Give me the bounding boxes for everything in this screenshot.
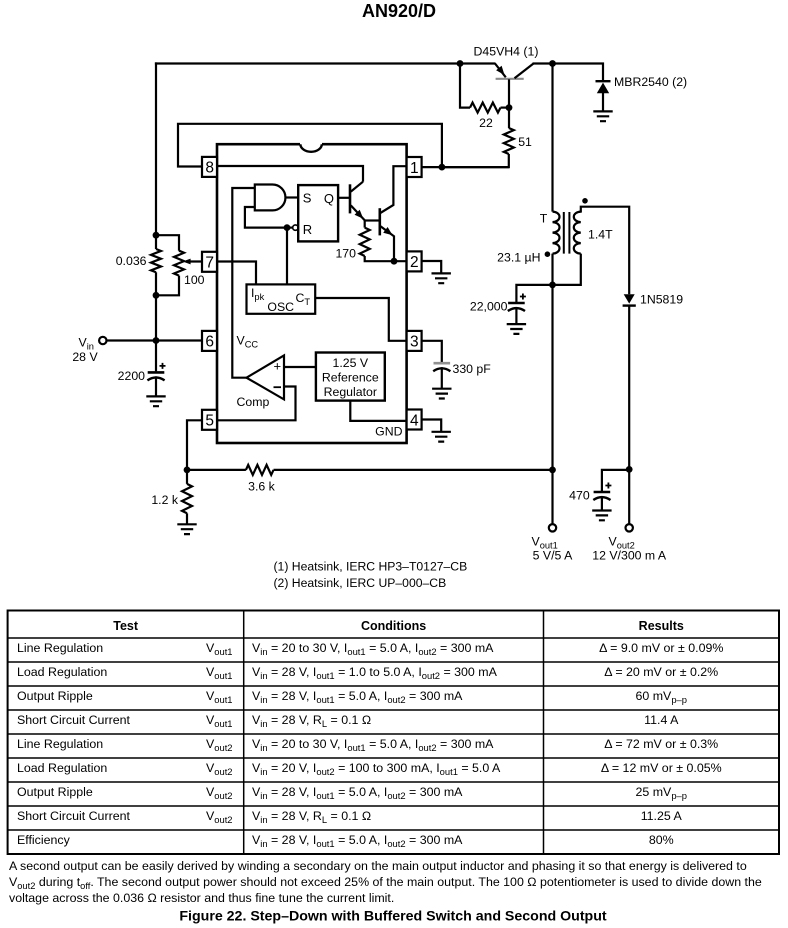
node feedback junction — [184, 467, 191, 474]
table column dividers — [244, 611, 544, 855]
wire pin 3 to 330 pF — [421, 341, 442, 362]
svg-text:80%: 80% — [649, 833, 674, 847]
transistor Q3 emitter arrow — [496, 66, 504, 75]
svg-text:T: T — [540, 212, 548, 226]
resistor 51 — [508, 108, 510, 128]
svg-text:28 V: 28 V — [72, 350, 98, 364]
svg-text:Efficiency: Efficiency — [17, 833, 71, 847]
reference regulator box — [316, 353, 385, 401]
wire Vin input to pin 6 — [106, 339, 202, 341]
resistor 22 — [470, 103, 500, 113]
svg-text:3.6 k: 3.6 k — [248, 479, 276, 493]
svg-text:330 pF: 330 pF — [453, 362, 492, 376]
svg-text:Figure 22. Step–Down with Buff: Figure 22. Step–Down with Buffered Switc… — [179, 909, 607, 925]
op-amp comparator triangle — [247, 355, 285, 399]
wire secondary top to 1N5819 — [581, 207, 629, 295]
svg-text:8: 8 — [205, 160, 214, 177]
svg-text:2: 2 — [410, 254, 419, 271]
ground pin 2 — [432, 273, 451, 283]
wire pin 8 internal to Q1 collector — [218, 166, 363, 182]
svg-text:22: 22 — [479, 116, 493, 130]
wire top rail horizontal to Q3 emitter — [155, 62, 496, 64]
svg-text:1N5819: 1N5819 — [640, 292, 683, 306]
wire Q3 base down to 22/51 junction — [508, 79, 510, 107]
resistor 0.036 current sense — [151, 249, 161, 272]
node junction 470 uF branch — [626, 466, 633, 473]
wire Vin top rail vertical — [155, 62, 157, 249]
potentiometer 100 — [174, 251, 184, 276]
wire AND lower input to R line — [245, 207, 287, 228]
node junction feedback / Vout1 — [549, 467, 556, 474]
label - input — [274, 386, 282, 388]
svg-text:Output Ripple: Output Ripple — [17, 689, 93, 703]
terminal Vin — [99, 337, 106, 344]
resistor 3.6 k feedback — [187, 469, 246, 471]
wire Vout1 vertical — [551, 285, 553, 524]
ground for MBR2540 — [593, 111, 612, 121]
ground for 2200 uF — [146, 396, 165, 406]
svg-text:11.4 A: 11.4 A — [644, 713, 679, 727]
transistor Q2 collector — [381, 166, 407, 213]
wire pin 4 to ground — [421, 420, 441, 432]
wire latch Q to Q1 base — [338, 197, 349, 199]
op IC U1 MC34063 outline — [217, 144, 407, 443]
wire pin 7 internal to oscillator — [218, 262, 256, 285]
inductor secondary winding 1.4T — [574, 212, 581, 254]
svg-text:Δ = 12 mV or ± 0.05%: Δ = 12 mV or ± 0.05% — [601, 761, 722, 775]
pot wiper arrow — [183, 259, 191, 265]
capacitor 470 uF second output — [602, 470, 629, 491]
transistor Q1 emitter — [351, 205, 365, 220]
svg-text:7: 7 — [205, 255, 214, 272]
transistor Q1 emitter arrow — [355, 210, 364, 219]
pin 5 box — [202, 410, 217, 430]
svg-text:Load Regulation: Load Regulation — [17, 665, 107, 679]
terminal Vout1 — [549, 524, 556, 531]
wire R node to latch bubble — [287, 227, 293, 229]
transistor Q3 collector — [515, 64, 534, 79]
svg-text:Vin = 28 V, Iout1 = 5.0 A, Iou: Vin = 28 V, Iout1 = 5.0 A, Iout2 = 300 m… — [252, 689, 463, 705]
capacitor 330 pF timing — [434, 362, 451, 365]
node junction top rail / switch node vertical — [549, 60, 556, 67]
svg-text:Line Regulation: Line Regulation — [17, 641, 103, 655]
svg-text:Vin = 20 to 30 V, Iout1 = 5.0: Vin = 20 to 30 V, Iout1 = 5.0 A, Iout2 =… — [252, 737, 494, 753]
wire pin 2 to ground — [421, 261, 441, 273]
svg-text:170: 170 — [335, 246, 356, 260]
transistor Q3 D45VH4 emitter — [495, 64, 506, 78]
svg-text:2200: 2200 — [118, 369, 146, 383]
ground pin 4 — [432, 432, 451, 442]
table row dividers — [8, 638, 779, 830]
svg-text:Vin = 28 V, Iout1 = 5.0 A, Iou: Vin = 28 V, Iout1 = 5.0 A, Iout2 = 300 m… — [252, 785, 463, 801]
svg-text:Comp: Comp — [237, 395, 270, 409]
svg-text:Line Regulation: Line Regulation — [17, 737, 103, 751]
svg-text:470: 470 — [569, 488, 590, 502]
node junction Q2 emitter / pin 2 line — [391, 258, 398, 265]
gate U2 AND — [255, 185, 286, 211]
svg-text:Short Circuit Current: Short Circuit Current — [17, 713, 130, 727]
resistor 1.2 k — [186, 470, 188, 484]
wire reference to pin 4 GND — [350, 401, 406, 421]
svg-text:Δ = 72 mV or ± 0.3%: Δ = 72 mV or ± 0.3% — [604, 737, 718, 751]
svg-text:Vin = 28 V, Iout1 = 5.0 A, Iou: Vin = 28 V, Iout1 = 5.0 A, Iout2 = 300 m… — [252, 833, 463, 849]
wire pin1 to 51-ohm node — [421, 166, 509, 168]
node junction rail / pot bottom — [153, 292, 160, 299]
svg-text:Conditions: Conditions — [361, 619, 426, 633]
svg-text:Reference: Reference — [322, 371, 379, 385]
svg-text:MBR2540 (2): MBR2540 (2) — [614, 75, 687, 89]
ground 22,000 uF — [507, 324, 526, 334]
latch U3 S-R box — [298, 185, 338, 241]
transistor Q2 base bar — [378, 208, 381, 235]
svg-text:(1) Heatsink, IERC HP3–T0127–C: (1) Heatsink, IERC HP3–T0127–CB — [274, 560, 468, 574]
wire Vout2 vertical — [628, 306, 630, 524]
wire secondary bottom to output node — [553, 254, 581, 285]
pin 4 box — [407, 410, 422, 430]
pin 8 box — [202, 157, 217, 177]
node junction top rail / 22-ohm branch — [457, 60, 464, 67]
wire - input to pin 5 — [218, 387, 296, 421]
svg-text:Vout2 during toff. The second: Vout2 during toff. The second output pow… — [9, 875, 762, 891]
svg-text:+: + — [274, 358, 282, 373]
resistor 170 — [364, 221, 366, 228]
pin 7 box — [202, 252, 217, 272]
transistor Q1 base bar — [349, 184, 352, 213]
transistor Q2 emitter arrow — [383, 227, 392, 235]
svg-text:GND: GND — [375, 425, 402, 439]
table outer border — [8, 611, 779, 855]
diode D3 1N5819 rectifier — [624, 294, 635, 303]
node junction rail / pot top — [153, 232, 160, 239]
wire pin 5 to feedback node — [187, 420, 203, 470]
node junction output LC — [549, 282, 556, 289]
svg-text:Δ = 9.0 mV or ± 0.09%: Δ = 9.0 mV or ± 0.09% — [599, 641, 723, 655]
svg-text:Δ = 20 mV or ± 0.2%: Δ = 20 mV or ± 0.2% — [604, 665, 718, 679]
svg-text:Test: Test — [113, 619, 139, 633]
wire CT to pin 3 — [315, 298, 406, 341]
ground 470 uF — [592, 511, 611, 521]
wire primary bottom to output node — [551, 254, 553, 285]
svg-text:Vin = 28 V, RL = 0.1 Ω: Vin = 28 V, RL = 0.1 Ω — [252, 713, 371, 729]
svg-text:OSC: OSC — [267, 300, 294, 314]
svg-text:100: 100 — [184, 273, 205, 287]
svg-text:Short Circuit Current: Short Circuit Current — [17, 809, 130, 823]
wire pot bottom branch — [156, 276, 179, 296]
svg-text:1.2 k: 1.2 k — [151, 493, 179, 507]
inductor T primary winding 23.1 uH — [553, 212, 560, 254]
wire switch node down to transformer — [551, 64, 553, 212]
phase dot secondary — [582, 198, 588, 204]
svg-text:22,000: 22,000 — [470, 299, 508, 313]
pin 3 box — [407, 331, 422, 351]
svg-text:A second output can be easily: A second output can be easily derived by… — [9, 859, 747, 873]
svg-text:Q: Q — [324, 191, 334, 206]
wire R node down to oscillator — [286, 228, 288, 285]
svg-text:Vin = 28 V, RL = 0.1 Ω: Vin = 28 V, RL = 0.1 Ω — [252, 809, 371, 825]
svg-text:Load Regulation: Load Regulation — [17, 761, 107, 775]
wire pot top branch — [156, 235, 179, 251]
phase dot primary — [545, 251, 551, 257]
svg-text:Regulator: Regulator — [324, 385, 377, 399]
svg-text:1.4T: 1.4T — [588, 228, 613, 242]
svg-text:R: R — [303, 222, 312, 237]
wire + input to reference — [284, 366, 316, 368]
svg-text:Vin = 20 V, Iout2 = 100 to 300: Vin = 20 V, Iout2 = 100 to 300 mA, Iout1… — [252, 761, 501, 777]
pin 6 box — [202, 331, 217, 351]
svg-text:6: 6 — [205, 334, 214, 351]
node junction pin1 / pin8 / 51-ohm — [439, 164, 446, 171]
transistor Q2 emitter — [381, 226, 395, 261]
capacitor 2200 uF input — [155, 341, 157, 372]
svg-text:S: S — [303, 191, 312, 206]
pin 2 box — [407, 251, 422, 271]
transistor Q1 driver collector — [351, 182, 363, 192]
svg-text:4: 4 — [410, 412, 419, 429]
transformer core lines — [564, 212, 570, 254]
IC notch — [300, 142, 322, 147]
ground for 1.2 k — [177, 524, 196, 534]
svg-text:AN920/D: AN920/D — [362, 1, 436, 21]
svg-text:Vin = 28 V, Iout1 = 1.0 to 5.0: Vin = 28 V, Iout1 = 1.0 to 5.0 A, Iout2 … — [252, 665, 498, 681]
svg-text:Results: Results — [639, 619, 684, 633]
latch R inversion bubble — [293, 225, 298, 230]
svg-text:0.036: 0.036 — [116, 254, 147, 268]
node junction 22-ohm / 51-ohm / Q3 base — [506, 104, 513, 111]
svg-text:(2) Heatsink, IERC UP–000–CB: (2) Heatsink, IERC UP–000–CB — [274, 576, 447, 590]
wire AND output to latch S — [286, 196, 299, 198]
svg-text:11.25 A: 11.25 A — [641, 809, 683, 823]
pin 1 box — [407, 157, 422, 177]
svg-text:3: 3 — [410, 334, 419, 351]
svg-text:Output Ripple: Output Ripple — [17, 785, 93, 799]
svg-text:23.1 µH: 23.1 µH — [497, 251, 540, 265]
wire top rail Q3 collector to MBR2540 corner — [533, 64, 604, 82]
svg-text:5 V/5 A: 5 V/5 A — [533, 549, 573, 563]
terminal Vout2 — [626, 524, 633, 531]
oscillator box Ipk OSC CT — [247, 284, 316, 313]
svg-text:Vin = 20 to 30 V, Iout1 = 5.0: Vin = 20 to 30 V, Iout1 = 5.0 A, Iout2 =… — [252, 641, 494, 657]
capacitor 22,000 uF output — [516, 285, 552, 302]
node junction Vin rail / pin 6 wire — [153, 337, 160, 344]
svg-text:1.25 V: 1.25 V — [333, 356, 369, 370]
wire pot wiper to pin 7 — [186, 260, 203, 262]
svg-text:voltage across the 0.036 Ω res: voltage across the 0.036 Ω resistor and … — [9, 891, 394, 905]
svg-text:5: 5 — [205, 413, 214, 430]
svg-text:D45VH4 (1): D45VH4 (1) — [474, 45, 539, 59]
diode D2 MBR2540 catch diode — [596, 80, 611, 82]
ground 330 pF — [432, 389, 451, 399]
svg-text:51: 51 — [518, 135, 532, 149]
node junction R line — [284, 224, 291, 231]
transistor Q3 base bar (gray) — [496, 78, 524, 80]
wire comparator output to AND upper input — [232, 188, 255, 378]
transistor Q2 output base wire — [365, 219, 379, 221]
svg-text:12 V/300 m A: 12 V/300 m A — [592, 549, 667, 563]
wire feedback line to Vout1 — [274, 469, 553, 471]
svg-text:1: 1 — [410, 160, 419, 177]
wire pin8 jumper over IC to pin1 node — [178, 124, 442, 167]
wire 22-ohm branch from top rail — [460, 64, 470, 108]
